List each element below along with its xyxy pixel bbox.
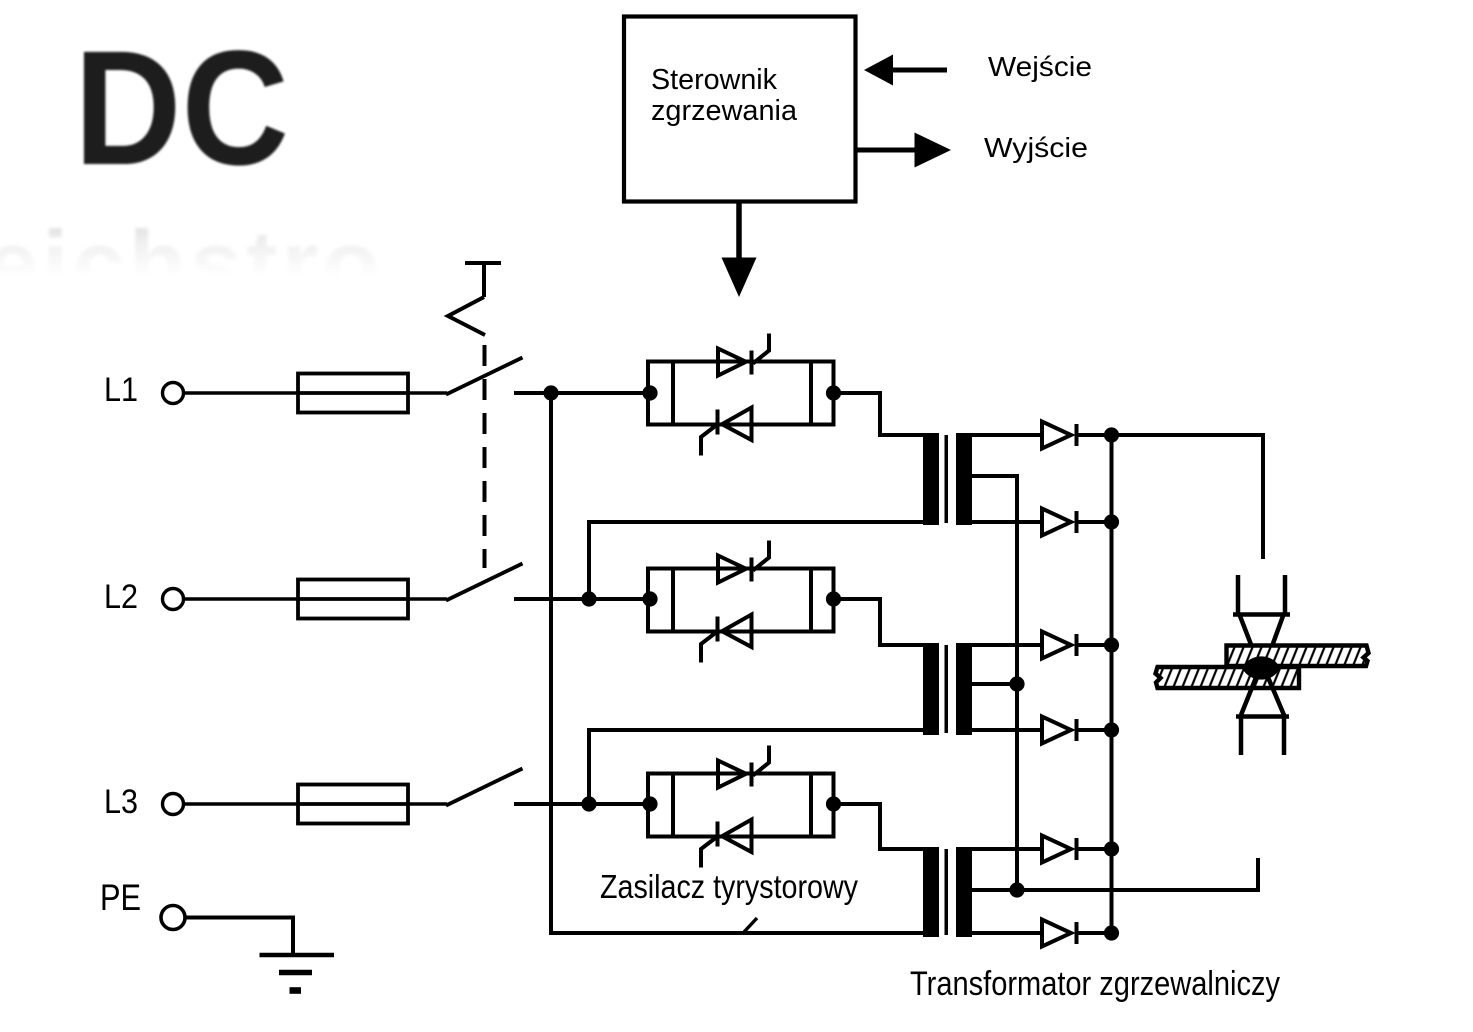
svg-text:L1: L1 [104,371,138,409]
node bus D2 [1104,514,1119,529]
wire Q3 to node N3 [514,802,651,806]
svg-text:L2: L2 [104,578,138,616]
stray gate tick on bottom wire [744,918,757,932]
TR2 secondary winding [956,643,972,735]
gate T1a [753,334,769,364]
node N1 junction [543,385,558,400]
transformer TR1 [923,433,1042,684]
node module M3 output [826,796,841,811]
wire module M2 output to TR2 primary top [834,599,924,645]
TR3 center tap wire [972,888,1017,892]
node TR2 center tap [1009,676,1024,691]
TR3 secondary top tap wire [972,847,1042,851]
center tap vertical bus [1015,476,1019,890]
TR3 secondary winding [956,847,972,937]
controller box U1 [624,17,856,202]
svg-text:eichstro: eichstro [0,211,384,316]
thyristor T2b [718,615,752,648]
gate T2a [753,541,769,571]
terminal L1 [163,383,184,404]
diode D1 [1042,422,1119,449]
node module M3 input [642,796,657,811]
wire F3 to switch Q3 [408,802,447,806]
node bus D5 [1104,841,1119,856]
terminal L3 [163,794,184,815]
wire L3 to fuse F3 [184,802,298,806]
diode D5 [1042,836,1119,863]
weld nugget [1242,656,1280,679]
terminal PE [161,906,185,930]
TR3 primary winding [923,847,939,937]
TR3 secondary bottom tap wire [972,931,1042,935]
diode D6 [1042,920,1119,947]
row L3 [104,769,651,824]
upper electrode [1233,575,1290,660]
node module M2 output [826,591,841,606]
TR2 core [945,645,949,733]
wire L2 to fuse F2 [184,597,298,601]
wire node N1 down to TR3 primary bottom [551,393,923,933]
fuse F1 [298,374,408,413]
node TR3 center tap [1009,882,1024,897]
row PE [100,877,334,991]
wire module M1 output to TR1 primary top [834,393,924,435]
workpiece sheet lower [1156,667,1300,688]
node N2 junction [581,591,596,606]
TR1 primary winding [923,433,939,525]
lower electrode [1236,675,1289,755]
thyristor T3a [718,761,752,788]
wire L1 to fuse F1 [184,391,298,395]
ground symbol [260,955,335,991]
TR1 secondary winding [956,433,972,525]
input arrow Wejscie [864,55,947,86]
diode D2 [1042,509,1119,536]
row L2 [104,564,651,619]
center tap return wire to lower electrode [1017,858,1258,890]
wire Q1 to node N1 [514,391,651,395]
TR2 primary winding [923,643,939,735]
node bus D4 [1104,722,1119,737]
switch Q1 blade [446,358,523,395]
svg-text:Wyjście: Wyjście [984,132,1088,163]
wire node N2 up to TR1 primary bottom [589,522,923,599]
output arrow Wyjscie [858,133,952,168]
svg-text:Wejście: Wejście [988,51,1092,82]
gate T2b [701,633,716,663]
switch Q3 blade [446,769,523,806]
node bus D1 [1104,427,1119,442]
svg-text:Sterownik: Sterownik [651,64,777,96]
thyristor T2a [718,556,752,583]
thyristor module M3 [642,746,923,868]
svg-text:PE: PE [100,877,141,918]
thyristor T1a [718,349,752,376]
thyristor T1b [718,408,752,441]
svg-text:zgrzewania: zgrzewania [651,95,798,127]
wire Q2 to node N2 [514,597,651,601]
TR1 center tap wire [972,476,1017,684]
TR1 secondary bottom tap wire [972,520,1042,524]
TR2 secondary bottom tap wire [972,728,1042,732]
node module M2 input [642,591,657,606]
wire module M3 output to TR3 primary top [834,804,924,849]
thyristor module M2 [642,541,923,663]
svg-text:Zasilacz tyrystorowy: Zasilacz tyrystorowy [600,868,858,905]
wire bus to upper electrode [1112,435,1264,559]
svg-text:L3: L3 [104,783,138,821]
TR2 secondary top tap wire [972,643,1042,647]
thyristor T3b [718,820,752,853]
TR3 core [945,849,949,935]
switch actuator [448,261,501,335]
terminal L2 [163,589,184,610]
node bus D3 [1104,637,1119,652]
module M2 box [648,569,834,632]
svg-text:Transformator zgrzewalniczy: Transformator zgrzewalniczy [910,965,1280,1003]
workpiece sheet upper [1227,646,1369,667]
TR1 core [945,435,949,523]
DC output bus [1110,435,1114,933]
label Sterownik zgrzewania [651,64,798,127]
node module M1 output [826,385,841,400]
wire node N3 up to TR2 primary bottom [589,730,923,804]
svg-text:DC: DC [74,16,289,199]
control arrow from U1 to thyristor unit [722,203,757,297]
TR1 secondary top tap wire [972,433,1042,437]
diode D3 [1042,632,1119,659]
gate T3a [753,746,769,776]
fuse F3 [298,785,408,824]
module M1 box [648,362,834,425]
row L1 [104,358,651,413]
node module M1 input [642,385,657,400]
transformer TR2 [923,643,1042,735]
module M3 box [648,774,834,837]
diode D4 [1042,717,1119,744]
gate T3b [701,838,716,868]
thyristor module M1 [642,334,923,456]
TR2 center tap wire [972,682,1017,686]
switch Q2 blade [446,564,523,601]
wire F2 to switch Q2 [408,597,447,601]
node bus D6 [1104,925,1119,940]
fuse F2 [298,580,408,619]
wire PE to ground [185,918,293,954]
node N3 junction [581,796,596,811]
transformer TR3 [923,847,1042,937]
gate T1b [701,426,716,456]
wire F1 to switch Q1 [408,391,447,395]
mechanical linkage dashed wire [483,345,487,568]
